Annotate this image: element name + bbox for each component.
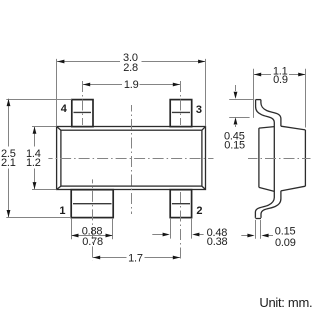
side view lead left edge through body xyxy=(255,100,274,218)
dimension 1.7 line xyxy=(93,257,127,259)
centerline pin 1 xyxy=(92,179,94,260)
extension line foot right xyxy=(260,220,262,239)
svg-text:1.2: 1.2 xyxy=(26,157,41,169)
svg-text:Unit: mm.: Unit: mm. xyxy=(259,295,312,310)
body inner outline (top view) xyxy=(61,130,202,186)
dimension 1.4 1.2 line xyxy=(34,127,36,147)
extension line pin1 right xyxy=(112,219,114,240)
extension line top horizontal (2.5) xyxy=(6,99,71,101)
dimension 0.45 0.15 arrows xyxy=(235,85,237,91)
extension line 0.45 top xyxy=(229,99,254,101)
bevel corner bottom-left xyxy=(57,186,61,189)
centerline pin 2 xyxy=(180,192,182,261)
svg-text:0.09: 0.09 xyxy=(275,237,296,249)
extension line 1.4 bottom xyxy=(32,189,56,191)
extension line pin2 left xyxy=(170,219,172,239)
pin 2 tick xyxy=(172,203,190,205)
centerline horizontal (top view) xyxy=(48,158,213,160)
body outer outline (top view) xyxy=(57,127,206,190)
svg-text:2.1: 2.1 xyxy=(1,157,16,169)
dimension 2.5 2.1 line xyxy=(8,99,10,147)
pin 4 box xyxy=(72,100,93,127)
pin 2 box xyxy=(170,190,191,218)
side view body top edge left xyxy=(259,127,274,129)
dimension 1.1 0.9 line xyxy=(254,74,271,76)
dimension 0.15 0.09 arrows xyxy=(241,235,248,237)
svg-text:4: 4 xyxy=(61,103,68,115)
pin 3 box xyxy=(170,100,192,127)
side view lead bottom right edge xyxy=(261,191,281,218)
side view body bottom edge right xyxy=(281,186,306,191)
svg-text:3: 3 xyxy=(196,104,202,116)
side view body bottom edge left xyxy=(259,187,274,191)
dimension 0.88 0.78 line xyxy=(72,235,113,237)
svg-text:1.9: 1.9 xyxy=(124,79,139,91)
dimension 3.0 2.8 line xyxy=(57,61,120,63)
side view centerline xyxy=(248,158,311,160)
extension line 1.4 top xyxy=(32,126,56,128)
pin 3 tick xyxy=(172,111,190,113)
svg-text:0.15: 0.15 xyxy=(275,226,296,238)
extension line 1.1 right xyxy=(305,69,307,128)
centerline pin 3 xyxy=(180,81,182,125)
side view lead top cap xyxy=(256,99,261,101)
centerline vertical package center xyxy=(131,105,133,214)
extension line right vertical (3.0) xyxy=(205,59,207,126)
svg-text:2.8: 2.8 xyxy=(123,62,138,74)
extension line pin1 left xyxy=(71,219,73,240)
svg-text:1.7: 1.7 xyxy=(128,252,143,264)
extension line pin2 right xyxy=(191,219,193,239)
svg-text:1: 1 xyxy=(59,205,65,217)
pin 4 tick xyxy=(74,111,92,113)
side view body left edge xyxy=(258,128,260,187)
svg-text:0.38: 0.38 xyxy=(207,236,228,248)
dimension 1.9 line xyxy=(83,84,123,86)
side view lead foot bottom cap xyxy=(255,218,261,220)
extension line foot left xyxy=(255,220,257,239)
extension line 1.1 left xyxy=(253,69,255,118)
dimension 0.48 0.38 arrows xyxy=(152,234,163,236)
bevel corner top-right xyxy=(202,127,206,131)
bevel corner bottom-right xyxy=(202,186,206,189)
side view lead top right edge xyxy=(261,100,281,127)
extension line 0.45 bottom xyxy=(229,117,249,119)
extension line 2.5 bottom xyxy=(6,217,71,219)
extension line left vertical (3.0) xyxy=(56,59,58,126)
side view body top edge right xyxy=(281,126,306,130)
svg-text:2: 2 xyxy=(196,205,202,217)
svg-text:0.15: 0.15 xyxy=(224,139,245,151)
pin 1 tick xyxy=(73,203,112,205)
centerline pin 4 xyxy=(82,81,84,125)
side view body right edge xyxy=(304,130,306,186)
svg-text:0.9: 0.9 xyxy=(273,74,288,86)
pin 1 box xyxy=(71,190,113,218)
bevel corner top-left xyxy=(57,127,61,131)
svg-text:0.78: 0.78 xyxy=(82,236,103,248)
